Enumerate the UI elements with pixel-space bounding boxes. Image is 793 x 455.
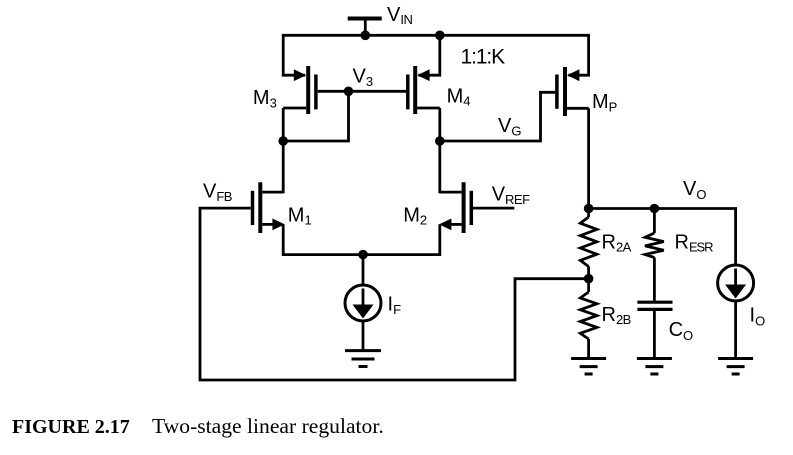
resistor RESR <box>645 233 664 258</box>
svg-text:CO: CO <box>669 319 694 343</box>
wire M2 gate lead VREF input <box>473 207 514 210</box>
wire M1 source to tail <box>283 224 363 254</box>
svg-text:R2B: R2B <box>602 304 631 327</box>
svg-text:MP: MP <box>592 91 617 114</box>
junction VO at RESR <box>650 204 660 214</box>
ground below CO <box>637 359 672 375</box>
wire RESR from VO <box>653 209 656 234</box>
svg-text:VREF: VREF <box>492 184 530 207</box>
svg-text:M1: M1 <box>288 204 312 227</box>
ground below IO <box>718 359 753 375</box>
ground IF <box>345 351 381 367</box>
wire IO to ground <box>734 301 737 359</box>
svg-text:IF: IF <box>388 294 402 317</box>
svg-text:VIN: VIN <box>387 4 412 27</box>
wire VG net to MP gate <box>440 92 555 141</box>
resistor R2B <box>580 279 597 359</box>
power symbol VIN <box>348 19 382 36</box>
resistor R2A <box>580 209 597 279</box>
svg-text:M2: M2 <box>403 204 427 227</box>
wire CO to ground <box>653 309 656 358</box>
wire M2 source to tail <box>363 224 440 254</box>
junction VO at MP drain <box>584 204 594 214</box>
wire IF to ground <box>362 321 365 351</box>
svg-text:M4: M4 <box>447 85 471 108</box>
svg-text:FIGURE 2.17: FIGURE 2.17 <box>12 416 130 438</box>
wire M4 drain down to M2 drain <box>438 108 441 193</box>
svg-text:R2A: R2A <box>602 231 632 254</box>
wire top supply rail <box>283 35 588 75</box>
current source IO <box>718 265 754 301</box>
svg-text:VO: VO <box>683 178 706 202</box>
wire RESR to CO <box>653 258 656 301</box>
svg-text:VG: VG <box>498 115 521 138</box>
svg-text:V3: V3 <box>353 66 374 89</box>
junction rail to M4 source <box>435 31 445 41</box>
wire tail to IF <box>362 255 365 285</box>
svg-text:IO: IO <box>750 304 766 328</box>
ground below R2B <box>571 359 606 375</box>
svg-text:1:1:K: 1:1:K <box>461 46 506 69</box>
node V3 junction <box>344 87 354 97</box>
wire gate net M3-M4 <box>318 90 406 93</box>
svg-text:RESR: RESR <box>675 231 714 254</box>
wire output rail VO <box>589 209 736 266</box>
junction feedback tap node <box>584 274 594 284</box>
svg-text:M3: M3 <box>253 87 277 110</box>
transistor M2 <box>439 182 471 233</box>
wire M3 diode connection to V3 <box>283 91 348 141</box>
junction tail node <box>358 250 368 260</box>
junction M3 drain node <box>278 136 288 146</box>
current source IF <box>345 285 381 321</box>
junction VG node <box>435 136 445 146</box>
wire M1 gate lead and feedback run <box>200 208 589 380</box>
svg-text:Two-stage linear regulator.: Two-stage linear regulator. <box>152 414 384 438</box>
svg-text:VFB: VFB <box>203 181 232 204</box>
transistor MP <box>557 67 589 116</box>
transistor M4 <box>408 66 440 114</box>
transistor M3 <box>283 66 316 114</box>
junction VIN tap <box>361 31 371 41</box>
capacitor CO <box>637 302 672 309</box>
transistor M1 <box>253 182 285 233</box>
wire M4 source from rail <box>418 35 439 75</box>
wire MP drain down to output node <box>587 108 590 208</box>
wire M3 drain down to M1 drain <box>282 108 285 193</box>
